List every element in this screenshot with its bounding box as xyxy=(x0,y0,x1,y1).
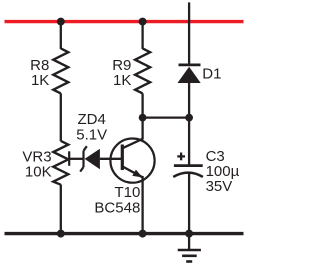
svg-text:BC548: BC548 xyxy=(94,199,140,216)
svg-text:10K: 10K xyxy=(25,163,52,180)
svg-text:1K: 1K xyxy=(31,72,49,89)
svg-text:D1: D1 xyxy=(202,66,221,83)
svg-text:1K: 1K xyxy=(113,72,131,89)
svg-text:5.1V: 5.1V xyxy=(76,126,107,143)
svg-text:35V: 35V xyxy=(206,178,233,195)
